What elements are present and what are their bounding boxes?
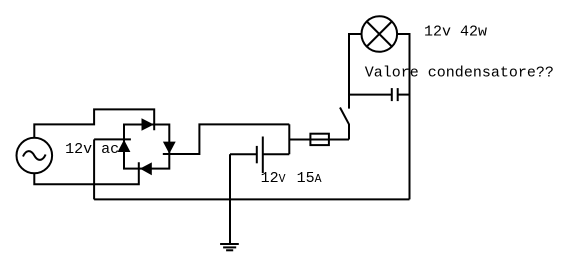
diode D3 right (pointing down) bbox=[163, 142, 176, 154]
lamp LP1 circle bbox=[362, 16, 398, 52]
wire ac source top to bridge top bbox=[34, 109, 154, 137]
wire battery to ground vertical bbox=[229, 154, 231, 244]
wire battery positive bbox=[263, 153, 290, 155]
wire lamp left to switch top (left vertical) bbox=[349, 34, 362, 109]
wire bridge left to rail bbox=[93, 139, 95, 199]
wire battery node vertical bbox=[288, 124, 290, 154]
svg-text:15: 15 bbox=[297, 170, 315, 187]
battery B1 short plate bbox=[256, 146, 258, 163]
svg-text:12: 12 bbox=[261, 170, 279, 187]
switch S1 blade bbox=[340, 108, 349, 125]
wire bridge right bar bbox=[163, 153, 176, 155]
wire fuse line bbox=[289, 139, 349, 141]
diode D2 left (pointing up) bbox=[118, 140, 131, 152]
switch S1 bottom stub bbox=[348, 124, 350, 140]
battery B1 long plate bbox=[262, 137, 264, 174]
fuse F1 body bbox=[310, 134, 329, 145]
wire bridge output top bbox=[163, 124, 289, 154]
ac source G1 circle bbox=[17, 138, 53, 174]
diode D1 top (pointing right) bbox=[142, 118, 154, 131]
wire battery negative bbox=[230, 153, 257, 155]
wire lamp right to bottom rail (right vertical) bbox=[397, 34, 409, 199]
lamp LP1 cross bbox=[367, 22, 392, 47]
svg-text:12v 42w: 12v 42w bbox=[424, 23, 487, 40]
wire bridge left bar bbox=[94, 138, 131, 140]
svg-text:Valore condensatore??: Valore condensatore?? bbox=[365, 65, 554, 82]
bridge rectifier body bbox=[124, 125, 169, 169]
svg-text:V: V bbox=[279, 173, 286, 186]
svg-text:A: A bbox=[315, 173, 322, 186]
wire ac source bottom to bridge bottom bbox=[34, 162, 139, 184]
svg-text:12v ac: 12v ac bbox=[65, 141, 119, 158]
diode D4 bottom (pointing left) bbox=[140, 162, 152, 175]
capacitor C1 right plate bbox=[397, 88, 399, 101]
ground GND bar 3 bbox=[226, 249, 233, 251]
ac source G1 sine wave bbox=[23, 151, 46, 160]
wire capacitor left bbox=[349, 94, 392, 96]
wire capacitor right bbox=[398, 94, 410, 96]
wire bottom rail bbox=[94, 198, 409, 200]
ground GND bar 2 bbox=[223, 246, 236, 248]
capacitor C1 left plate bbox=[391, 88, 393, 101]
ground GND bar 1 bbox=[220, 243, 239, 245]
